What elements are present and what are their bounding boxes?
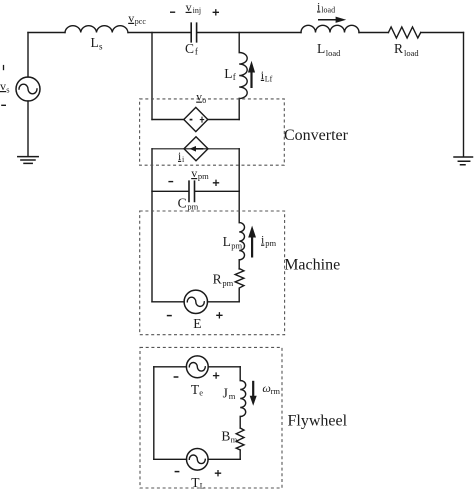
svg-text:Lf: Lf	[265, 74, 273, 83]
plus mark vpm	[213, 180, 219, 186]
inductor Jm	[240, 381, 246, 417]
svg-text:pm: pm	[231, 240, 242, 250]
wire Te row right	[208, 366, 240, 368]
svg-text:L: L	[224, 66, 232, 81]
svg-text:v: v	[191, 166, 197, 180]
minus mark vs bottom	[1, 104, 6, 106]
resistor Rload	[388, 27, 420, 38]
svg-text:B: B	[221, 429, 230, 444]
plus mark inside vo	[200, 117, 204, 123]
wire Lload to Rload	[359, 32, 388, 34]
svg-text:pm: pm	[187, 202, 198, 212]
svg-text:o: o	[202, 96, 206, 105]
arrow inside ii diamond	[193, 148, 203, 150]
wire right rail	[463, 33, 465, 157]
arrow ipm	[251, 237, 253, 258]
svg-text:v: v	[128, 11, 134, 25]
svg-text:f: f	[195, 47, 198, 57]
inductor Lpm	[239, 223, 244, 260]
flywheel box	[140, 347, 282, 488]
minus mark inside vo	[190, 119, 193, 121]
wire left rail lower	[27, 101, 29, 156]
dependent source vo diamond	[184, 107, 208, 131]
wire left rail converter to machine	[151, 149, 153, 302]
inductor Lf	[239, 53, 247, 99]
wire E row right	[208, 301, 240, 303]
wire ii row	[152, 148, 239, 150]
wire Rpm to E row	[238, 289, 240, 301]
plus mark Te	[213, 372, 219, 378]
svg-text:inj: inj	[193, 6, 201, 15]
svg-text:rm: rm	[271, 386, 281, 396]
svg-text:s: s	[6, 85, 9, 95]
svg-text:v: v	[0, 79, 6, 93]
wire top-left horizontal	[28, 32, 65, 34]
svg-text:L: L	[223, 234, 231, 249]
ground left	[18, 157, 38, 164]
wire right drop to Jm	[239, 367, 241, 381]
svg-text:J: J	[223, 386, 228, 401]
wire Jm to Bm	[239, 417, 241, 429]
wire Rload to right corner	[421, 32, 464, 34]
inductor Ls	[65, 26, 128, 33]
wire vpcc drop	[151, 33, 153, 120]
wire vo row right	[208, 119, 239, 121]
arrows	[249, 17, 345, 404]
svg-text:e: e	[199, 387, 203, 397]
ground right	[454, 157, 473, 165]
source E	[184, 290, 207, 313]
wire Te row left	[154, 366, 187, 368]
plus mark vs top	[3, 65, 5, 70]
wire Lf bottom to vo row	[238, 99, 240, 120]
svg-text:load: load	[321, 6, 335, 15]
source vs	[16, 77, 40, 101]
minus mark vpm	[168, 181, 173, 183]
svg-text:load: load	[404, 48, 419, 58]
plus mark E	[216, 312, 222, 318]
svg-text:pm: pm	[265, 238, 276, 248]
machine box	[140, 211, 285, 335]
wire left rail upper	[27, 33, 29, 78]
minus mark TL	[175, 471, 180, 473]
svg-text:f: f	[233, 72, 236, 82]
wire flywheel left rail	[153, 367, 155, 460]
resistor Bm	[236, 428, 244, 450]
converter box	[140, 99, 285, 165]
svg-text:L: L	[200, 481, 205, 491]
svg-text:pm: pm	[198, 171, 209, 181]
svg-text:m: m	[229, 391, 236, 401]
svg-text:pcc: pcc	[135, 17, 147, 26]
minus mark Te	[174, 376, 179, 378]
arrow iload	[318, 19, 337, 21]
wire Cf to Lf node	[197, 32, 301, 34]
svg-text:load: load	[326, 48, 341, 58]
capacitor Cpm	[189, 181, 195, 201]
svg-text:R: R	[213, 272, 222, 287]
svg-text:Machine: Machine	[284, 257, 340, 274]
svg-text:C: C	[185, 41, 194, 56]
svg-text:pm: pm	[222, 278, 233, 288]
wire Bm to TL row	[239, 450, 241, 459]
svg-text:m: m	[231, 435, 238, 445]
arrow wrm	[252, 381, 254, 397]
svg-text:L: L	[317, 41, 325, 56]
wire E row left	[152, 301, 184, 303]
source TL	[187, 449, 209, 471]
minus mark E	[167, 315, 172, 317]
wire Lf top drop	[238, 33, 240, 53]
svg-text:v: v	[186, 0, 192, 14]
svg-text:i: i	[178, 151, 181, 163]
inductor Lload	[301, 25, 359, 32]
arrow iLf	[250, 71, 252, 88]
wire TL row right	[208, 458, 240, 460]
capacitor Cf	[191, 23, 196, 42]
svg-text:R: R	[394, 41, 403, 56]
wire cpm row right	[195, 190, 239, 192]
wire top mid (vpcc node to Cf)	[128, 32, 191, 34]
wire cpm row left	[152, 190, 189, 192]
svg-text:Flywheel: Flywheel	[288, 412, 348, 429]
minus mark vinj	[170, 11, 175, 13]
resistor Rpm	[235, 269, 244, 290]
svg-text:s: s	[99, 42, 103, 52]
svg-text:i: i	[182, 155, 185, 164]
source Te	[186, 356, 208, 378]
wire right rail ii to Lpm	[238, 149, 240, 223]
dashed boxes	[140, 99, 285, 488]
plus mark TL	[215, 470, 221, 476]
svg-text:Converter: Converter	[284, 127, 349, 144]
plus mark vinj	[213, 9, 219, 15]
svg-text:C: C	[178, 195, 187, 210]
svg-text:L: L	[91, 35, 99, 50]
wire TL row left	[154, 458, 187, 460]
wire Lpm to Rpm	[238, 260, 240, 269]
svg-text:E: E	[193, 316, 201, 331]
wire vo row left	[152, 119, 184, 121]
dependent source ii diamond	[184, 137, 208, 161]
